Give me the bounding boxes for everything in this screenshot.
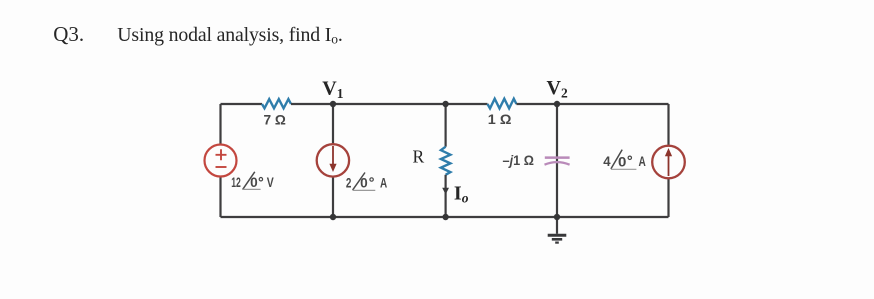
svg-text:12: 12 — [231, 175, 241, 190]
value label 2∠0°A — [346, 173, 387, 191]
wire: right branch (through 4∠0°A source) — [667, 104, 669, 217]
wire: bottom rail — [221, 216, 669, 218]
junction: R branch bottom — [442, 214, 448, 220]
svg-text:R: R — [413, 146, 425, 166]
svg-text:A: A — [639, 154, 646, 169]
arrow Io (current direction on R branch) — [442, 188, 449, 195]
svg-text:0: 0 — [360, 176, 368, 191]
svg-text:0: 0 — [250, 175, 258, 190]
resistor 7Ω (horizontal zigzag) — [262, 99, 291, 108]
svg-text:4: 4 — [603, 154, 611, 169]
wire: top rail right segment (1Ω through node V2 to right corner) — [516, 103, 668, 105]
svg-text:1 Ω: 1 Ω — [488, 112, 512, 127]
wire: left branch (through voltage source) — [219, 104, 221, 217]
voltage source 12∠0°V (circle with plus/minus) — [205, 145, 237, 177]
resistor 1Ω (horizontal zigzag) — [488, 99, 517, 109]
svg-text:7 Ω: 7 Ω — [264, 112, 287, 127]
junction: R branch top — [442, 101, 448, 107]
svg-text:V: V — [267, 175, 274, 190]
problem statement text — [53, 22, 342, 47]
current source 4∠0°A (circle with upward arrow) — [652, 146, 685, 179]
junction: V1 branch bottom — [330, 214, 336, 220]
value label 12∠0°V — [231, 172, 274, 190]
wire: node V1 branch (through 2∠0°A source) — [332, 104, 334, 217]
wire: R branch bottom segment — [445, 175, 447, 217]
node V2 (junction dot and label) — [554, 101, 560, 107]
wire: top rail left segment (left corner to 7Ω) — [221, 103, 263, 105]
node V1 (junction dot and label) — [330, 101, 336, 107]
svg-text:–j1 Ω: –j1 Ω — [503, 153, 535, 168]
wire: top rail middle segment (7Ω to 1Ω, through node V1 and R junction) — [291, 103, 488, 105]
current source 2∠0°A (circle with downward arrow) — [317, 144, 349, 176]
value label 4∠0°A — [603, 150, 646, 170]
svg-text:Q3.: Q3. — [53, 22, 84, 46]
ground (below node V2) — [548, 217, 567, 243]
wire: node V2 branch (through capacitor, continuous) — [556, 104, 558, 217]
capacitor -j1Ω (plates) — [545, 158, 570, 165]
junction: V2 branch bottom (ground node) — [554, 214, 560, 220]
svg-text:A: A — [380, 175, 387, 190]
svg-text:Using nodal analysis, find Io.: Using nodal analysis, find Io. — [117, 24, 342, 47]
svg-text:2: 2 — [346, 175, 352, 190]
wire: R branch top segment — [445, 104, 447, 147]
resistor R (vertical zigzag) — [441, 147, 451, 175]
svg-text:0: 0 — [618, 154, 626, 169]
